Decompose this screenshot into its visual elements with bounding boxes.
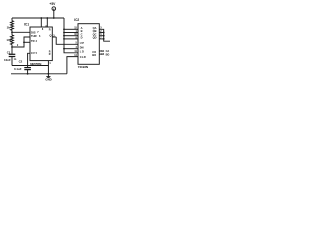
svg-text:D: D [81, 36, 83, 40]
svg-text:TR: TR [31, 39, 35, 43]
wire C1 ground [12, 66, 48, 74]
svg-text:QD: QD [93, 36, 97, 40]
svg-text:BO: BO [106, 53, 110, 56]
svg-text:74193N: 74193N [78, 65, 89, 69]
pin numbers right [100, 27, 102, 40]
pin numbers left [74, 27, 77, 57]
svg-text:DIS: DIS [31, 30, 36, 34]
svg-text:1k: 1k [7, 26, 11, 30]
svg-text:UP: UP [80, 41, 85, 45]
+5V supply [49, 2, 56, 19]
wire CLR to ground [67, 57, 78, 74]
resistor R1 [7, 18, 14, 32]
wire CV to C2 [28, 53, 30, 67]
wire THR/TR [12, 37, 30, 47]
svg-text:GND: GND [45, 78, 51, 82]
node R1/R2 junction [11, 31, 13, 33]
svg-text:C1: C1 [7, 51, 11, 55]
pin 4 stub [46, 18, 48, 27]
svg-text:+5V: +5V [49, 2, 56, 6]
pin CO stub [99, 50, 102, 52]
node A [63, 28, 65, 30]
wire ground rail [11, 73, 67, 75]
node DN [63, 48, 65, 50]
svg-text:0.1uF: 0.1uF [14, 67, 22, 71]
svg-text:C2: C2 [19, 59, 23, 63]
resistor R2 [6, 32, 19, 47]
svg-text:IC1: IC1 [24, 23, 29, 27]
svg-text:10k: 10k [6, 38, 11, 42]
pin 1 GND stub [47, 61, 49, 66]
IC IC2 74193N [74, 18, 109, 69]
node QD [103, 38, 105, 40]
svg-text:BO: BO [92, 53, 96, 57]
svg-text:NE555N: NE555N [30, 62, 42, 66]
ground [45, 74, 51, 82]
IC IC1 NE555N [24, 17, 56, 66]
wire Q to UP [56, 37, 78, 44]
wire DIS [12, 31, 30, 33]
svg-text:THR: THR [31, 34, 37, 38]
node QC [103, 35, 105, 37]
svg-text:1n: 1n [14, 59, 17, 61]
svg-text:DN: DN [80, 45, 84, 49]
capacitor C2 [14, 59, 31, 73]
pin labels right [92, 26, 96, 57]
svg-text:CV: CV [31, 51, 35, 55]
svg-text:10nF: 10nF [4, 58, 11, 62]
svg-text:IC2: IC2 [74, 18, 79, 22]
pin 8 stub [40, 18, 42, 27]
svg-text:CLR: CLR [80, 55, 86, 59]
wire +5V rail [12, 17, 64, 19]
node C [63, 35, 65, 37]
svg-text:1: 1 [49, 62, 51, 65]
node R2/C1 junction [11, 46, 13, 48]
svg-text:Q: Q [49, 34, 51, 38]
svg-text:LD: LD [80, 50, 85, 54]
node B [63, 32, 65, 34]
svg-text:13: 13 [101, 53, 104, 56]
capacitor C1 [4, 47, 17, 66]
node D [63, 38, 65, 40]
svg-text:R: R [49, 53, 51, 56]
wire +5V data bus [63, 18, 78, 53]
pin BO stub [99, 53, 102, 55]
svg-text:R: R [49, 28, 51, 31]
node QB [103, 32, 105, 34]
wire output bus [99, 29, 110, 41]
